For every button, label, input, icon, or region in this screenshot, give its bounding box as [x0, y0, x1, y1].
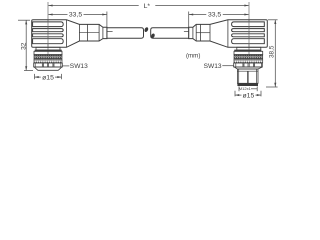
left nut top band — [34, 51, 62, 54]
right connector center axis — [248, 2, 250, 63]
right 33,5 dimension line — [189, 12, 249, 38]
svg-text:SW13: SW13 — [70, 63, 88, 70]
right thread dark band — [237, 83, 258, 86]
right SW13 leader — [222, 65, 233, 67]
left dia 15 dimension — [35, 74, 62, 79]
cable left segment — [107, 28, 144, 39]
cable break oval left — [144, 27, 149, 33]
svg-text:33,5: 33,5 — [208, 12, 221, 19]
cable stub line right — [184, 31, 189, 33]
right thread cylinder — [237, 69, 258, 83]
right knurl band — [234, 55, 263, 60]
right M12x1 dimension — [239, 86, 257, 91]
left washer — [35, 50, 61, 51]
right dia 15 dimension — [235, 91, 261, 97]
right knurl checker row — [234, 60, 263, 63]
left neck — [36, 47, 60, 50]
left strain relief ribs — [33, 22, 64, 44]
left 33,5 dimension line — [48, 12, 107, 38]
right washer — [235, 50, 261, 51]
right axis over block — [248, 20, 250, 48]
right thread cylinder inner lines — [237, 69, 258, 83]
left 32 vertical dimension — [18, 20, 33, 70]
right 38,5 arrows — [274, 20, 276, 87]
left knurl checker row — [34, 60, 62, 63]
svg-text:32: 32 — [20, 42, 27, 50]
right strain relief ribs — [232, 22, 265, 44]
left 32 arrows — [25, 20, 27, 70]
cable right segment — [151, 28, 189, 39]
svg-text:33,5: 33,5 — [69, 12, 82, 19]
svg-text:SW13: SW13 — [204, 63, 222, 70]
left body joint lines — [66, 20, 68, 48]
cable break oval right — [150, 33, 155, 39]
svg-text:L*: L* — [144, 3, 151, 10]
left connector body outline — [32, 20, 107, 48]
svg-text:(mm): (mm) — [186, 52, 200, 59]
right dia 15 arrows — [235, 94, 261, 96]
left 33,5 arrows — [48, 13, 106, 15]
right bottom cone — [234, 67, 262, 69]
right body joint lines — [227, 20, 229, 48]
left knurl band — [34, 55, 62, 60]
left bottom cone — [34, 67, 62, 70]
svg-text:M12x1: M12x1 — [239, 86, 252, 91]
right sleeve midline — [196, 32, 210, 34]
right nut top band — [234, 51, 263, 54]
left hex band — [34, 63, 63, 67]
cable stub line left — [107, 31, 113, 33]
left axis over block — [47, 20, 49, 48]
right neck — [237, 47, 261, 50]
right connector body outline — [189, 20, 268, 48]
dimension L* line — [48, 5, 248, 7]
svg-text:38,5: 38,5 — [269, 45, 276, 58]
right 38,5 vertical dimension — [266, 20, 278, 87]
svg-text:ø15: ø15 — [42, 74, 54, 81]
left SW13 leader — [62, 65, 69, 67]
dimension L* arrows — [48, 4, 248, 6]
left hex band grooves — [35, 63, 61, 67]
right hex band grooves — [236, 63, 262, 67]
left sleeve midline — [79, 32, 99, 34]
svg-text:ø15: ø15 — [243, 92, 255, 99]
left connector center axis — [47, 2, 49, 63]
right 33,5 arrows — [189, 13, 249, 15]
right hex band — [234, 63, 263, 67]
left dia 15 arrows — [35, 76, 62, 78]
